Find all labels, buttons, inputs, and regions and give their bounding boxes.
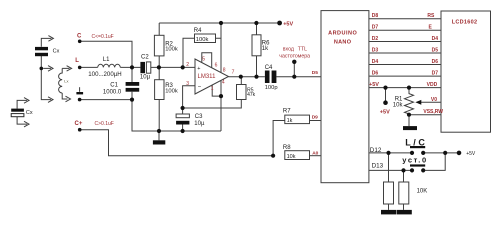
- svg-text:10k: 10k: [287, 154, 296, 160]
- svg-text:10k: 10k: [393, 103, 404, 109]
- svg-text:L: L: [75, 58, 79, 64]
- svg-text:VDD: VDD: [427, 82, 438, 88]
- svg-text:100k: 100k: [196, 37, 209, 43]
- svg-text:TTL: TTL: [298, 47, 307, 53]
- svg-text:C>0.1uF: C>0.1uF: [95, 121, 114, 127]
- svg-text:10µ: 10µ: [194, 121, 205, 127]
- svg-text:Cx: Cx: [53, 49, 60, 55]
- svg-text:+5V: +5V: [369, 82, 379, 88]
- svg-text:LM311: LM311: [198, 74, 217, 80]
- svg-text:+5V: +5V: [466, 151, 476, 157]
- svg-text:A0: A0: [312, 151, 318, 157]
- svg-text:D3: D3: [372, 47, 379, 53]
- svg-text:3: 3: [186, 81, 189, 87]
- svg-text:2: 2: [186, 62, 189, 68]
- svg-text:1: 1: [211, 86, 214, 92]
- svg-text:уст.0: уст.0: [402, 155, 427, 164]
- svg-text:NANO: NANO: [334, 40, 352, 46]
- svg-text:10K: 10K: [417, 188, 428, 194]
- svg-text:частотомера: частотомера: [279, 53, 310, 59]
- svg-text:100k: 100k: [165, 88, 178, 94]
- svg-text:D7: D7: [432, 71, 439, 77]
- svg-text:Cx: Cx: [26, 110, 33, 116]
- svg-text:+5V: +5V: [380, 110, 390, 116]
- svg-text:100p: 100p: [265, 85, 278, 91]
- svg-text:D6: D6: [372, 71, 379, 77]
- svg-text:C<=0.1uF: C<=0.1uF: [92, 34, 114, 40]
- svg-text:+: +: [197, 66, 200, 72]
- svg-text:5: 5: [202, 56, 205, 62]
- svg-text:+5V: +5V: [283, 21, 293, 27]
- svg-text:100...200µH: 100...200µH: [88, 71, 121, 78]
- svg-text:L1: L1: [103, 57, 110, 63]
- svg-text:C1: C1: [110, 82, 118, 88]
- svg-text:100k: 100k: [165, 47, 178, 53]
- svg-text:R1: R1: [395, 96, 403, 102]
- svg-text:R8: R8: [283, 145, 291, 151]
- svg-text:D5: D5: [312, 70, 318, 76]
- svg-text:1000.0: 1000.0: [103, 89, 122, 95]
- svg-text:D6: D6: [432, 59, 439, 65]
- svg-text:1k: 1k: [262, 46, 269, 52]
- svg-text:D12: D12: [370, 147, 382, 154]
- svg-text:−: −: [198, 84, 202, 90]
- svg-text:D5: D5: [432, 47, 439, 53]
- svg-text:D4: D4: [372, 59, 379, 65]
- svg-text:C3: C3: [195, 114, 203, 120]
- svg-text:8: 8: [223, 67, 226, 73]
- svg-text:4: 4: [222, 80, 225, 86]
- svg-text:Lx: Lx: [64, 79, 68, 84]
- svg-text:D4: D4: [432, 36, 439, 42]
- svg-text:R7: R7: [283, 109, 291, 115]
- svg-text:7: 7: [232, 69, 235, 75]
- svg-text:ARDUINO: ARDUINO: [328, 30, 357, 36]
- svg-text:L/C: L/C: [405, 137, 427, 147]
- svg-text:LCD1602: LCD1602: [452, 19, 478, 25]
- svg-text:10µ: 10µ: [140, 75, 151, 81]
- svg-text:C2: C2: [141, 55, 149, 61]
- svg-text:D7: D7: [372, 25, 379, 31]
- svg-text:C+: C+: [75, 121, 83, 127]
- svg-text:1k: 1k: [287, 118, 293, 124]
- svg-text:вход: вход: [283, 47, 294, 53]
- svg-text:V0: V0: [431, 97, 437, 103]
- svg-text:R4: R4: [194, 28, 202, 34]
- svg-text:D9: D9: [312, 114, 318, 120]
- svg-text:D8: D8: [372, 13, 379, 19]
- svg-text:VSS,RW: VSS,RW: [423, 109, 443, 115]
- svg-text:6: 6: [215, 62, 218, 68]
- svg-text:D13: D13: [372, 162, 384, 169]
- svg-text:RS: RS: [427, 13, 435, 19]
- svg-text:C4: C4: [265, 65, 273, 71]
- svg-text:D2: D2: [372, 36, 379, 42]
- svg-text:47k: 47k: [247, 92, 256, 98]
- svg-text:C: C: [77, 34, 82, 40]
